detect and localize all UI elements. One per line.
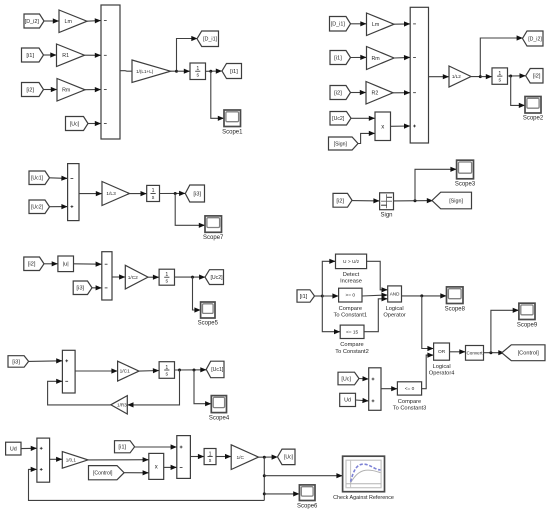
wire xyxy=(359,376,369,381)
node after integrator xyxy=(209,70,212,73)
svg-text:[Sign]: [Sign] xyxy=(334,141,348,147)
svg-text:[D_i2]: [D_i2] xyxy=(25,19,40,25)
svg-text:1/C1: 1/C1 xyxy=(120,369,130,375)
wire xyxy=(120,70,132,73)
wire xyxy=(50,176,68,181)
wire xyxy=(44,52,57,57)
feedback wire to Sum7 xyxy=(29,467,265,501)
gain R2 xyxy=(366,82,393,105)
wire xyxy=(75,368,118,373)
wire xyxy=(130,191,147,196)
gain Rm (left model) xyxy=(57,79,85,102)
svg-text:[i3]: [i3] xyxy=(12,359,20,365)
gain Rm (right model) xyxy=(367,47,395,70)
wire xyxy=(381,386,397,391)
sum block Sum8 xyxy=(177,436,191,479)
integrator 1/s (left model) xyxy=(190,63,206,80)
wire xyxy=(351,90,367,95)
wire trunk xyxy=(315,295,323,297)
gain 1/C xyxy=(231,445,258,470)
integrator 1/s (C1) xyxy=(159,362,174,379)
sum block Sum5 xyxy=(62,350,75,393)
compare to constant1 block >= 0 xyxy=(339,288,362,302)
wire down to Compare To Constant2 xyxy=(322,296,340,334)
svg-text:Scope4: Scope4 xyxy=(209,416,230,422)
wire xyxy=(21,446,37,451)
svg-text:Sign: Sign xyxy=(380,213,392,219)
wire compare2 to AND xyxy=(364,296,388,332)
from tag [Uc2] (L3 branch) xyxy=(29,200,50,214)
svg-text:s: s xyxy=(499,78,502,84)
wire AND out xyxy=(402,293,447,298)
svg-text:[Uc]: [Uc] xyxy=(284,455,294,461)
svg-text:1/L3: 1/L3 xyxy=(106,191,116,197)
gain Lm (right model) xyxy=(367,13,395,36)
svg-text:<= 15: <= 15 xyxy=(346,329,359,335)
svg-text:s: s xyxy=(209,458,212,464)
from tag [Control] (bottom) xyxy=(89,466,125,480)
from tag [i2] (right model) xyxy=(330,86,351,100)
svg-text:1/C: 1/C xyxy=(236,455,244,461)
sum block Sum4 xyxy=(102,252,112,300)
wire xyxy=(88,457,149,462)
sum block Sum1 xyxy=(101,5,120,139)
wire xyxy=(139,368,159,373)
wire xyxy=(164,465,177,470)
scope Scope6 xyxy=(299,485,315,501)
svg-text:[Uc2]: [Uc2] xyxy=(332,116,345,122)
svg-text:|u|: |u| xyxy=(63,262,69,268)
wire xyxy=(393,90,410,95)
wire xyxy=(88,121,101,126)
wire to Scope3 xyxy=(415,167,457,201)
wire xyxy=(29,358,63,363)
wire to Scope4 xyxy=(194,370,211,406)
wire xyxy=(429,74,450,79)
svg-text:To Constant3: To Constant3 xyxy=(393,406,427,412)
goto tag [i2] xyxy=(526,69,543,84)
gain Lm (left model) xyxy=(59,10,87,33)
wire trunk down xyxy=(263,457,265,500)
svg-text:Lm: Lm xyxy=(372,22,380,28)
goto tag [Uc] (bottom) xyxy=(278,449,296,465)
wire detect increase to AND xyxy=(367,261,388,292)
integrator 1/s (C2) xyxy=(159,269,174,285)
goto tag [D_i1] xyxy=(197,31,219,47)
from tag [Uc2] (right model) xyxy=(330,112,351,126)
svg-text:OR: OR xyxy=(438,349,446,355)
svg-text:To Constant2: To Constant2 xyxy=(335,349,369,355)
goto tag [Sign] xyxy=(432,192,472,209)
svg-text:To Constant1: To Constant1 xyxy=(334,313,368,319)
svg-text:[Uc1]: [Uc1] xyxy=(211,367,224,373)
scope Scope3 xyxy=(457,160,474,179)
wire xyxy=(44,87,58,92)
gain 1/L2 xyxy=(449,66,471,87)
node to 1/R3 feedback xyxy=(178,369,181,372)
gain 1/(L1+L) xyxy=(132,60,171,83)
product block x xyxy=(375,112,391,141)
svg-text:Scope3: Scope3 xyxy=(455,182,476,188)
svg-text:Logical: Logical xyxy=(386,306,404,312)
from tag [i2] (C2 branch) xyxy=(24,257,44,271)
wire xyxy=(216,454,231,459)
wire xyxy=(394,21,410,26)
wire xyxy=(135,444,177,449)
wire to Scope1 xyxy=(211,71,224,121)
integrator 1/s (bottom) xyxy=(204,449,216,465)
svg-text:[Uc1]: [Uc1] xyxy=(31,176,44,182)
wire xyxy=(351,55,367,60)
node after integrator (right model) xyxy=(509,75,512,78)
scope Scope4 xyxy=(211,396,226,413)
wire xyxy=(394,198,434,203)
svg-text:Scope1: Scope1 xyxy=(222,130,243,136)
svg-text:Compare: Compare xyxy=(340,342,363,348)
scope Scope8 xyxy=(447,287,464,304)
svg-text:1/L2: 1/L2 xyxy=(452,74,461,79)
logical operator AND xyxy=(388,286,402,302)
wire with junction to goto D_i1 xyxy=(171,36,198,71)
wire xyxy=(394,55,410,60)
scope Scope5 xyxy=(201,302,215,318)
goto tag [Uc1] xyxy=(206,361,224,378)
wire xyxy=(87,18,101,23)
wire up to Scope9 xyxy=(491,308,519,353)
from tag [D_i1] (right model) xyxy=(330,17,351,32)
gain 1/C2 xyxy=(125,265,148,289)
svg-text:Scope7: Scope7 xyxy=(203,235,224,241)
wire xyxy=(74,262,102,267)
wire OR to Convert xyxy=(450,349,466,354)
svg-text:Scope8: Scope8 xyxy=(445,306,466,312)
svg-text:[i1]: [i1] xyxy=(300,294,308,300)
node AND branch xyxy=(420,294,423,297)
node after gain 1/L2 xyxy=(479,75,482,78)
wire xyxy=(177,69,191,74)
node after gain 1/(L1+L) xyxy=(175,70,178,73)
wire xyxy=(508,73,526,78)
svg-text:Scope9: Scope9 xyxy=(517,322,538,328)
svg-text:[Control]: [Control] xyxy=(518,351,540,357)
goto tag [D_i2] xyxy=(523,31,544,46)
from tag [Sign] (right model) xyxy=(329,137,359,150)
svg-text:[D_i1]: [D_i1] xyxy=(331,22,346,28)
svg-text:R2: R2 xyxy=(372,91,379,97)
detect increase block U > U/z xyxy=(336,254,367,269)
wire up to Detect Increase xyxy=(322,259,335,296)
node before Control xyxy=(489,351,492,354)
node after integrator (C2) xyxy=(191,276,194,279)
svg-text:Ud: Ud xyxy=(344,398,351,404)
svg-text:Check Against Reference: Check Against Reference xyxy=(333,495,394,501)
compare to constant3 block <= 0 xyxy=(397,382,421,395)
wire xyxy=(124,470,149,475)
svg-text:s: s xyxy=(152,195,155,201)
node to Scope4 xyxy=(193,369,196,372)
svg-text:Scope2: Scope2 xyxy=(523,116,544,122)
wire xyxy=(50,204,68,209)
svg-text:Increase: Increase xyxy=(340,279,362,285)
from tag [i2] xyxy=(22,83,44,97)
scope Scope7 xyxy=(205,216,222,232)
wire to Scope7 xyxy=(175,194,205,228)
check against reference block xyxy=(343,456,385,492)
from tag [Uc] (logic branch) xyxy=(338,372,359,385)
wire xyxy=(351,116,375,121)
svg-text:Detect: Detect xyxy=(343,272,360,278)
wire xyxy=(79,191,102,196)
sum block Sum6 xyxy=(369,368,381,411)
svg-text:s: s xyxy=(166,279,169,285)
svg-text:1/(L1+L): 1/(L1+L) xyxy=(136,69,154,74)
svg-text:Rm: Rm xyxy=(62,88,71,94)
gain 1/0,1 xyxy=(62,452,88,469)
svg-text:[Uc2]: [Uc2] xyxy=(210,275,223,281)
gain 1/C1 xyxy=(118,361,139,381)
wire AND down to OR xyxy=(422,296,434,351)
wire to Scope5 xyxy=(193,277,201,313)
svg-text:[i3]: [i3] xyxy=(76,286,84,292)
svg-text:[i1]: [i1] xyxy=(230,69,238,75)
svg-text:AND: AND xyxy=(390,292,400,297)
data type conversion block Convert xyxy=(466,346,484,361)
wire xyxy=(112,274,125,279)
from tag [i2] (sign branch) xyxy=(333,193,352,207)
constant Ud (bottom) xyxy=(6,442,21,455)
wire xyxy=(352,198,380,203)
from tag [Uc] xyxy=(66,117,89,131)
svg-text:[i3]: [i3] xyxy=(193,192,201,198)
wire xyxy=(44,18,59,23)
svg-text:[Uc]: [Uc] xyxy=(70,121,80,127)
svg-text:[i2]: [i2] xyxy=(336,198,344,204)
wire xyxy=(358,131,375,144)
wire compare1 to AND xyxy=(362,293,388,298)
from tag [D_i2] xyxy=(24,14,44,28)
wire xyxy=(190,454,204,459)
svg-text:x: x xyxy=(381,124,384,130)
from tag [i1] xyxy=(22,48,44,62)
svg-text:U > U/z: U > U/z xyxy=(343,259,360,265)
svg-text:x: x xyxy=(155,464,158,470)
wire xyxy=(259,455,278,460)
svg-text:1/C2: 1/C2 xyxy=(128,275,138,281)
integrator 1/s (right model) xyxy=(492,68,508,84)
goto tag [i3] xyxy=(185,185,204,202)
svg-text:Logical: Logical xyxy=(433,364,451,370)
wire xyxy=(356,398,369,403)
wire xyxy=(44,261,58,266)
from tag [i3] (C2 branch) xyxy=(73,281,92,295)
product block X (bottom) xyxy=(149,453,164,479)
node after integrator (L3) xyxy=(174,192,177,195)
gain 1/R3 (feedback, points left) xyxy=(111,396,128,414)
constant Ud (logic branch) xyxy=(340,393,356,406)
wire xyxy=(391,124,411,129)
goto tag [Control] xyxy=(502,345,545,361)
svg-text:Lm: Lm xyxy=(65,19,73,25)
svg-text:s: s xyxy=(166,371,169,377)
sum block Sum2 xyxy=(410,7,428,143)
from tag [Uc1] (L3 branch) xyxy=(29,171,50,185)
wire xyxy=(92,285,102,290)
svg-text:Scope5: Scope5 xyxy=(198,321,219,327)
svg-text:>= 0: >= 0 xyxy=(345,293,355,299)
svg-text:[i2]: [i2] xyxy=(334,91,342,97)
wire xyxy=(480,74,492,79)
goto tag [i1] xyxy=(222,64,242,79)
wire xyxy=(175,367,207,372)
scope Scope2 xyxy=(525,97,541,114)
wire down to 1/R3 xyxy=(127,370,179,408)
gain R1 xyxy=(57,44,85,67)
sign block xyxy=(380,193,394,210)
wire Convert out xyxy=(484,350,505,355)
svg-text:[Uc2]: [Uc2] xyxy=(31,205,44,211)
svg-text:Scope6: Scope6 xyxy=(297,503,318,509)
svg-text:1/R3: 1/R3 xyxy=(117,402,127,407)
svg-text:s: s xyxy=(197,73,200,79)
svg-text:Compare: Compare xyxy=(339,306,362,312)
svg-text:Convert: Convert xyxy=(466,350,483,355)
wire xyxy=(175,275,206,280)
node to check reference xyxy=(263,474,266,477)
wire junction branch up to goto D_i2 xyxy=(471,35,523,76)
goto tag [Uc2] xyxy=(205,270,224,285)
svg-text:Ud: Ud xyxy=(10,446,17,452)
from tag [i1] (logic branch) xyxy=(297,290,315,302)
node splitter xyxy=(321,295,324,298)
wire to Check Against Reference xyxy=(264,473,342,478)
svg-text:Rm: Rm xyxy=(371,56,380,62)
svg-text:1/0,1: 1/0,1 xyxy=(66,458,77,463)
compare to constant2 block <= 15 xyxy=(340,325,364,338)
svg-text:Operator4: Operator4 xyxy=(429,371,455,377)
svg-text:<= 0: <= 0 xyxy=(405,386,415,392)
from tag [i3] (C1 branch) xyxy=(8,356,29,368)
wire to Scope2 xyxy=(511,76,525,108)
wire to Compare To Constant1 xyxy=(322,293,338,298)
node after sign xyxy=(414,199,417,202)
svg-text:[i1]: [i1] xyxy=(26,53,34,59)
wire xyxy=(160,191,186,196)
svg-text:Compare: Compare xyxy=(398,399,421,405)
svg-text:[i1]: [i1] xyxy=(334,56,342,62)
wire xyxy=(50,457,63,462)
from tag [i1] (bottom) xyxy=(115,441,135,453)
node after 1/C xyxy=(263,456,266,459)
wire xyxy=(85,87,101,92)
svg-text:[i1]: [i1] xyxy=(118,445,126,451)
svg-text:[i2]: [i2] xyxy=(533,74,541,80)
scope Scope9 xyxy=(519,303,535,319)
sum block Sum7 xyxy=(37,438,50,482)
wire xyxy=(206,69,223,74)
svg-text:[i2]: [i2] xyxy=(28,262,36,268)
svg-text:[i2]: [i2] xyxy=(26,88,34,94)
from tag [i1] (right model) xyxy=(330,51,351,65)
node to Scope6 xyxy=(263,492,266,495)
wire xyxy=(351,21,367,26)
svg-text:[Uc]: [Uc] xyxy=(341,376,351,382)
logical operator OR xyxy=(434,343,450,360)
scope Scope1 xyxy=(224,110,241,127)
integrator 1/s (L3) xyxy=(147,185,160,201)
wire xyxy=(148,275,159,280)
sum block Sum3 xyxy=(68,164,79,221)
svg-text:[Sign]: [Sign] xyxy=(449,198,463,204)
wire xyxy=(85,53,102,58)
wire 1/R3 output to sum xyxy=(48,379,111,405)
svg-text:[D_i1]: [D_i1] xyxy=(203,37,218,43)
wire compare3 to OR xyxy=(422,353,434,389)
svg-text:R1: R1 xyxy=(62,53,69,59)
wire to Scope6 xyxy=(264,491,299,496)
svg-text:[Control]: [Control] xyxy=(93,471,113,477)
svg-text:Operator: Operator xyxy=(383,313,406,319)
svg-text:[D_i2]: [D_i2] xyxy=(528,36,542,42)
abs block |u| xyxy=(58,256,74,272)
gain 1/L3 xyxy=(102,182,130,206)
